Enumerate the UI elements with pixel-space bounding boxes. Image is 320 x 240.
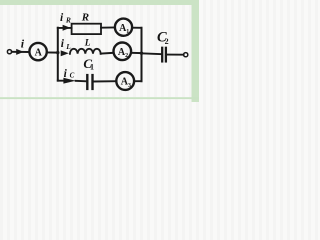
node: left junction bar <box>57 28 59 81</box>
resistor R <box>72 24 101 34</box>
wire A to left bar <box>47 51 58 53</box>
svg-text:R: R <box>65 16 71 25</box>
label C2 <box>157 29 169 45</box>
svg-text:L: L <box>65 42 71 51</box>
svg-text:i: i <box>61 38 65 50</box>
svg-text:1: 1 <box>126 29 129 35</box>
svg-text:2: 2 <box>125 53 128 59</box>
capacitor C1 <box>87 75 92 89</box>
svg-text:C: C <box>70 71 75 79</box>
ammeter A2 <box>114 43 132 61</box>
page background texture <box>0 0 199 102</box>
wire inductor to A2 <box>101 52 114 55</box>
input terminal <box>7 50 11 54</box>
junction dot right <box>140 52 143 55</box>
current arrow i <box>16 49 24 55</box>
ammeter A1 <box>115 19 132 36</box>
wire arrow to C1 <box>76 80 86 83</box>
ammeter A3 <box>116 72 134 90</box>
current arrow iL <box>61 50 69 56</box>
ammeter A <box>29 43 46 60</box>
current arrow iC <box>63 78 75 84</box>
svg-text:2: 2 <box>165 37 169 46</box>
inductor L <box>70 49 101 54</box>
node: right junction bar <box>141 28 143 81</box>
junction dot left <box>56 51 59 54</box>
svg-text:R: R <box>81 12 89 24</box>
label C1 <box>83 56 94 71</box>
label iL <box>61 38 72 51</box>
capacitor C2 <box>162 48 166 62</box>
output terminal <box>184 53 188 57</box>
svg-text:3: 3 <box>128 83 131 89</box>
wire C1 to A3 <box>94 80 116 82</box>
label iR <box>60 12 71 25</box>
wire A1 to right bar <box>132 28 141 32</box>
svg-text:i: i <box>64 68 68 80</box>
svg-text:A: A <box>35 48 43 59</box>
wire A3 to right bar <box>134 77 141 81</box>
svg-text:i: i <box>60 12 64 24</box>
wire resistor to A1 <box>101 27 115 29</box>
wire right bar to C2 <box>142 52 162 55</box>
svg-text:i: i <box>21 37 25 51</box>
wire input to ammeter A <box>12 51 30 53</box>
wire A2 to right bar <box>131 52 141 54</box>
svg-text:1: 1 <box>90 62 94 71</box>
svg-text:L: L <box>84 39 91 49</box>
current arrow iR <box>63 25 71 31</box>
label iC <box>64 68 75 80</box>
wire C2 to output terminal <box>167 54 184 56</box>
wire top branch lead <box>58 27 72 29</box>
wire bottom branch lead <box>58 79 65 81</box>
